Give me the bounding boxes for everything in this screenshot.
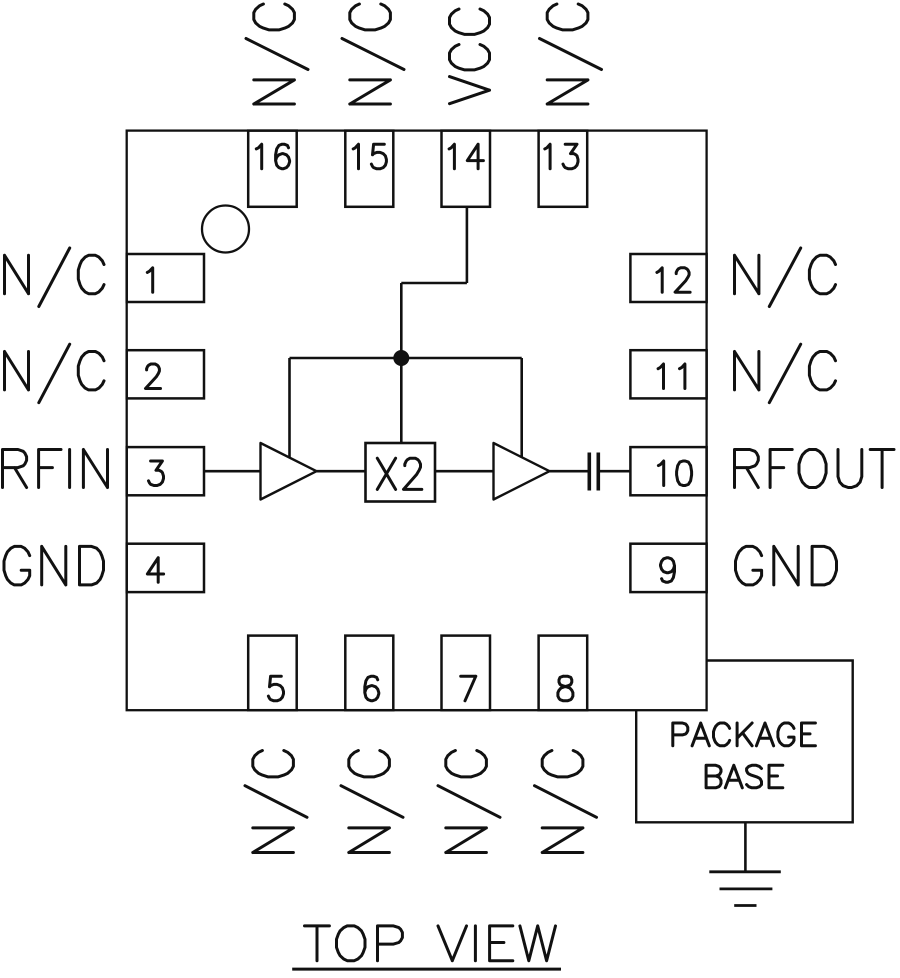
bias wire to A2 (520, 358, 523, 457)
pin 9 number (661, 558, 675, 583)
amplifier A1 (261, 443, 317, 500)
pin 11 pad (630, 350, 706, 398)
pin 5 number (268, 676, 283, 701)
pin 6 number (365, 676, 379, 701)
pin 11 number (658, 364, 685, 389)
pin 15 pad (345, 131, 393, 207)
pin 2 number (146, 364, 161, 389)
pin 4 pad (127, 544, 204, 592)
net label N/C pin 12 (735, 248, 836, 307)
pin 2 pad (127, 350, 204, 398)
net label N/C pin 2 (5, 344, 105, 403)
net label GND pin 4 (4, 546, 104, 585)
net label N/C pin 13 (540, 4, 602, 104)
net label VCC pin 14 (450, 9, 490, 104)
net label N/C pin 8 (535, 751, 597, 853)
pin 4 number (147, 558, 163, 583)
pin 16 pad (248, 131, 297, 207)
net label RFIN pin 3 (3, 450, 108, 488)
BASE label (706, 765, 783, 788)
net label GND pin 9 (736, 546, 837, 585)
pin 1 number (147, 268, 152, 292)
wire X2 to amplifier A2 (435, 470, 494, 473)
pin 7 number (461, 676, 476, 701)
pin 8 number (558, 676, 573, 701)
pin 13 number (545, 144, 578, 169)
ground bar 3 (734, 904, 756, 907)
pin 10 number (658, 461, 691, 486)
pin 1 pad (127, 254, 204, 302)
pin 14 number (449, 144, 483, 169)
pin 9 pad (630, 544, 706, 592)
wire A1 to X2 (317, 470, 366, 473)
pin 8 pad (539, 636, 588, 711)
junction dot (393, 350, 409, 366)
ground bar 1 (709, 870, 781, 873)
net label N/C pin 11 (735, 344, 836, 403)
title underline (292, 968, 561, 971)
package base box (636, 661, 853, 823)
pin 14 pad (442, 131, 491, 207)
pin 7 pad (442, 636, 491, 711)
VCC wire jog (401, 282, 467, 285)
PACKAGE label (673, 723, 816, 746)
VCC wire from pin 14 down (466, 207, 469, 283)
bias rail (290, 357, 522, 360)
pin 10 pad (630, 447, 706, 495)
frequency doubler X2 box (366, 443, 436, 502)
net label RFOUT pin 10 (735, 450, 895, 488)
net label N/C pin 16 (246, 4, 308, 104)
VCC wire down to X2 (400, 283, 403, 443)
wire capacitor C1 to pin 10 (600, 470, 630, 473)
net label N/C pin 1 (5, 248, 105, 307)
wire pin 3 to amplifier A1 (204, 470, 261, 473)
title TOP VIEW (305, 926, 556, 961)
net label N/C pin 15 (342, 4, 404, 104)
net label N/C pin 7 (438, 751, 500, 853)
package outline (127, 131, 707, 711)
amplifier A2 (494, 443, 550, 500)
pin 6 pad (345, 636, 393, 711)
pin 1 indicator (202, 206, 249, 253)
pin 12 pad (630, 254, 706, 302)
pin 12 number (657, 268, 690, 292)
net label N/C pin 5 (245, 751, 307, 853)
X2 label (377, 458, 422, 489)
net label N/C pin 6 (341, 751, 403, 853)
pin 16 number (256, 144, 289, 169)
ground stem (744, 822, 747, 872)
pin 15 number (353, 144, 386, 169)
pin 5 pad (248, 636, 297, 711)
bias wire to A1 (288, 358, 291, 458)
pin 13 pad (539, 131, 588, 207)
pin 3 pad (127, 447, 204, 495)
capacitor C1 (587, 453, 591, 491)
wire A2 to capacitor C1 (550, 470, 588, 473)
ground bar 2 (720, 888, 773, 891)
pin 3 number (149, 461, 164, 486)
